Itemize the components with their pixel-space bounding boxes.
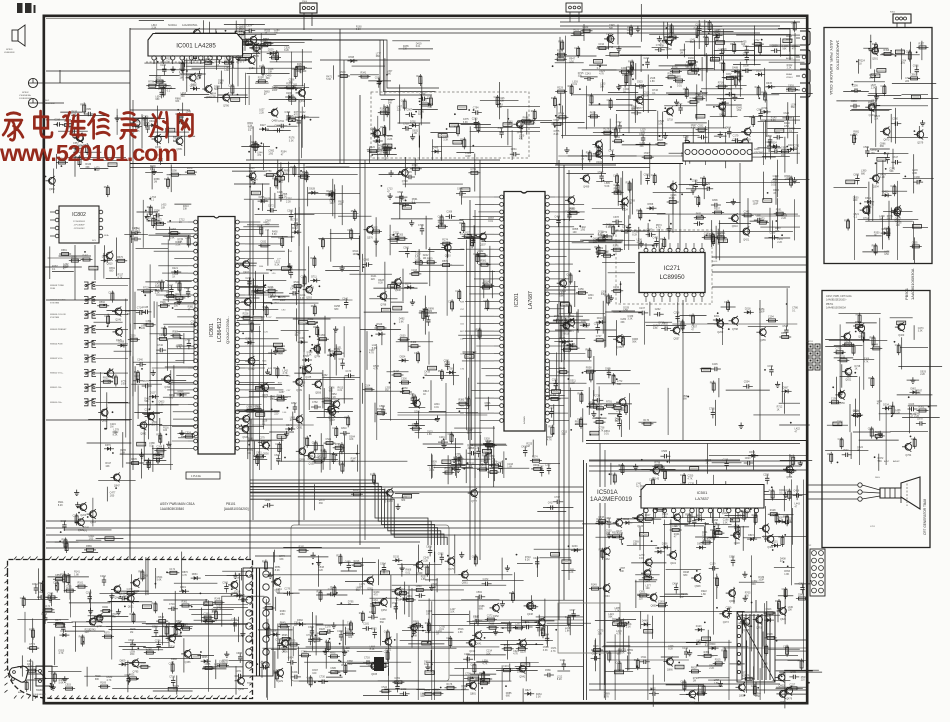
resistor C500 <box>654 509 666 511</box>
net label box <box>277 435 286 439</box>
resistor C483 <box>404 99 406 111</box>
resistor C398 <box>776 513 778 525</box>
ground <box>799 460 801 463</box>
transistor Q409 <box>416 562 423 569</box>
svg-text:R948: R948 <box>605 652 611 655</box>
svg-text:680: 680 <box>401 499 406 502</box>
wire <box>667 388 669 435</box>
diode D710 <box>302 359 305 361</box>
resistor C194 <box>152 216 154 228</box>
capacitor C598 <box>153 214 157 216</box>
resistor R548 <box>292 285 304 287</box>
capacitor C148 <box>887 154 889 158</box>
svg-text:5.6K: 5.6K <box>272 233 277 236</box>
ground <box>640 241 642 244</box>
svg-text:220: 220 <box>371 278 376 281</box>
svg-text:C417: C417 <box>548 502 554 505</box>
svg-text:56K: 56K <box>560 294 565 297</box>
resistor R471 <box>875 42 877 54</box>
svg-text:Q764: Q764 <box>905 454 912 457</box>
svg-text:C896: C896 <box>712 199 718 202</box>
wire <box>474 452 476 478</box>
wire <box>259 326 261 470</box>
transistor Q837 <box>689 691 696 698</box>
resistor R298 <box>169 174 181 176</box>
resistor R154 <box>413 624 415 636</box>
resistor C727 <box>594 339 606 341</box>
resistor R791 <box>697 26 699 38</box>
svg-text:R958: R958 <box>482 454 488 457</box>
resistor C779 <box>834 351 846 353</box>
svg-text:100P: 100P <box>272 89 278 92</box>
resistor C339 <box>581 30 593 32</box>
ground <box>676 99 678 102</box>
resistor C605 <box>910 245 922 247</box>
ground <box>628 224 630 227</box>
transistor Q217 <box>201 44 208 51</box>
transistor Q306 <box>894 209 901 216</box>
wire <box>266 642 268 700</box>
svg-text:3.3K: 3.3K <box>415 255 420 258</box>
svg-text:C396: C396 <box>128 639 134 642</box>
resistor R262 <box>328 640 330 652</box>
svg-text:C438: C438 <box>142 306 148 309</box>
diode D329 <box>267 52 270 54</box>
svg-text:C366: C366 <box>409 393 415 396</box>
svg-text:C957: C957 <box>297 65 303 68</box>
wire <box>624 202 626 250</box>
dashed IF amp box <box>371 92 529 158</box>
transistor Q278 <box>76 134 83 141</box>
svg-text:Q418: Q418 <box>734 542 741 545</box>
jack SP903 <box>28 98 55 107</box>
svg-text:C401: C401 <box>292 671 298 674</box>
capacitor C974 <box>770 366 772 370</box>
svg-text:2.2K: 2.2K <box>787 67 792 70</box>
resistor C708 <box>254 291 266 293</box>
svg-text:R350: R350 <box>551 97 557 100</box>
resistor R441 <box>758 85 760 97</box>
svg-text:D919: D919 <box>180 586 186 589</box>
capacitor C380 <box>288 112 290 116</box>
ground <box>412 299 414 302</box>
transistor Q386 <box>767 536 774 543</box>
wire <box>568 155 637 157</box>
svg-text:C351: C351 <box>146 320 152 323</box>
capacitor C123 <box>551 408 553 412</box>
svg-text:C545: C545 <box>724 301 730 304</box>
svg-text:C633: C633 <box>607 99 613 102</box>
ground <box>593 411 595 414</box>
svg-text:33K: 33K <box>752 583 757 586</box>
resistor R684 <box>667 201 679 203</box>
wire <box>390 284 392 421</box>
resistor R581 <box>479 264 491 266</box>
svg-text:Q556: Q556 <box>780 701 787 704</box>
resistor R745 <box>179 281 181 293</box>
svg-text:C810: C810 <box>341 427 347 430</box>
capacitor C797 <box>782 521 786 523</box>
resistor R562 <box>917 410 929 412</box>
resistor C916 <box>615 624 627 626</box>
resistor R636 <box>631 60 633 72</box>
diode D280 <box>285 96 288 98</box>
wire <box>854 195 856 260</box>
ground <box>732 199 734 202</box>
transistor Q790 <box>401 169 408 176</box>
transistor Q145 <box>653 467 660 474</box>
svg-text:C389: C389 <box>85 108 91 111</box>
wire <box>902 94 929 96</box>
svg-text:C583: C583 <box>661 450 667 453</box>
capacitor C720 <box>593 399 597 401</box>
resistor R149 <box>759 43 761 55</box>
resistor R992 <box>724 648 726 660</box>
svg-text:R668: R668 <box>353 489 359 492</box>
svg-text:C774: C774 <box>29 643 35 646</box>
net label box <box>560 302 569 306</box>
capacitor C233 <box>144 414 148 416</box>
svg-text:0.01: 0.01 <box>793 147 798 150</box>
wire <box>428 332 430 365</box>
capacitor C714 <box>136 312 140 314</box>
resistor C484 <box>404 599 416 601</box>
resistor R172 <box>154 223 166 225</box>
capacitor C278 <box>158 641 160 645</box>
svg-text:R506: R506 <box>609 225 615 228</box>
svg-text:A850P: A850P <box>893 460 900 463</box>
ground <box>389 193 391 196</box>
wire <box>534 548 583 550</box>
svg-text:220: 220 <box>141 327 146 330</box>
svg-text:R581: R581 <box>481 260 487 263</box>
svg-text:33K: 33K <box>640 145 645 148</box>
wire <box>501 665 503 700</box>
resistor R885 <box>715 236 727 238</box>
svg-text:C628: C628 <box>484 437 490 440</box>
svg-text:680: 680 <box>609 27 614 30</box>
resistor R880 <box>568 212 580 214</box>
ic IC271 LC89950 <box>639 243 718 302</box>
resistor C298 <box>267 626 269 638</box>
transistor Q229 <box>520 640 527 647</box>
capacitor C609 <box>400 192 402 196</box>
wire <box>288 627 290 661</box>
resistor R924 <box>344 663 346 675</box>
resistor C338 <box>754 684 756 696</box>
resistor C281 <box>373 604 375 616</box>
svg-text:C765: C765 <box>51 673 57 676</box>
resistor R646 <box>276 669 278 681</box>
resistor C255 <box>64 590 76 592</box>
transistor Q367 <box>329 409 336 416</box>
diode D815 <box>747 538 750 540</box>
wire <box>644 315 646 345</box>
svg-text:R561: R561 <box>505 622 511 625</box>
resistor R973 <box>765 644 767 656</box>
diode D118 <box>291 231 294 233</box>
resistor C558 <box>678 487 690 489</box>
resistor R264 <box>782 535 784 547</box>
svg-text:Q159: Q159 <box>309 463 316 466</box>
svg-text:D374: D374 <box>286 424 292 427</box>
resistor R978 <box>483 444 495 446</box>
component cluster left column jacks <box>45 103 128 198</box>
wire <box>272 299 353 301</box>
capacitor C582 <box>475 596 479 598</box>
resistor R176 <box>611 249 623 251</box>
svg-text:Q229: Q229 <box>277 680 284 683</box>
svg-text:C346: C346 <box>287 210 293 213</box>
capacitor C523 <box>395 603 397 607</box>
component cluster center col <box>350 154 505 441</box>
transistor Q550 <box>262 442 269 449</box>
svg-text:100: 100 <box>707 540 712 543</box>
svg-text:L16B020N: L16B020N <box>4 52 15 54</box>
ground <box>100 615 102 618</box>
net label box <box>470 677 479 681</box>
component cluster top-left around IC001 <box>139 19 312 108</box>
resistor C925 <box>56 581 58 593</box>
svg-text:D809: D809 <box>120 659 126 662</box>
svg-text:R648: R648 <box>523 116 529 119</box>
transistor Q159 <box>308 452 315 459</box>
resistor C714 <box>76 513 78 525</box>
wire <box>560 313 606 315</box>
svg-text:C756: C756 <box>301 275 307 278</box>
svg-text:Q145: Q145 <box>653 478 660 481</box>
transistor Q999 <box>729 590 736 597</box>
svg-text:R471: R471 <box>872 43 878 46</box>
net label box <box>481 678 490 682</box>
diode D339 <box>204 54 207 56</box>
resistor R103 <box>728 493 740 495</box>
svg-text:R672: R672 <box>870 336 876 339</box>
net label box <box>276 176 285 180</box>
svg-text:Q947: Q947 <box>114 484 121 487</box>
capacitor C702 <box>553 501 557 503</box>
svg-text:1.8K: 1.8K <box>650 80 655 83</box>
rear AV jacks <box>786 31 810 97</box>
svg-text:C565: C565 <box>766 135 772 138</box>
diode D234 <box>882 407 885 409</box>
resistor C151 <box>392 681 404 683</box>
svg-text:C109: C109 <box>680 474 686 477</box>
svg-text:C161: C161 <box>347 622 353 625</box>
capacitor C655 <box>161 88 163 92</box>
svg-text:C910: C910 <box>632 107 638 110</box>
svg-text:C246: C246 <box>689 315 695 318</box>
resistor R884 <box>556 116 568 118</box>
svg-text:Q199: Q199 <box>469 650 476 653</box>
diode D772 <box>601 235 604 237</box>
capacitor C959 <box>694 223 698 225</box>
resistor R278 <box>601 132 613 134</box>
svg-text:C650: C650 <box>719 62 725 65</box>
svg-text:R136: R136 <box>688 57 694 60</box>
ground <box>495 629 497 632</box>
net label box <box>763 199 772 203</box>
svg-text:C985: C985 <box>619 336 625 339</box>
svg-text:C639: C639 <box>782 588 788 591</box>
ground <box>437 416 439 419</box>
svg-text:C886: C886 <box>713 577 719 580</box>
transistor Q961 <box>858 325 865 332</box>
resistor R143 <box>378 112 390 114</box>
diode D950 <box>709 647 712 649</box>
transistor Q199 <box>469 640 476 647</box>
svg-text:D710: D710 <box>303 355 309 358</box>
transistor Q273 <box>722 610 729 617</box>
svg-text:Q475: Q475 <box>448 568 455 571</box>
wire <box>788 660 809 662</box>
svg-text:5.6K: 5.6K <box>258 291 263 294</box>
resistor R771 <box>688 512 690 524</box>
net label box <box>895 50 904 54</box>
net label box <box>204 602 213 606</box>
wire <box>253 51 312 53</box>
svg-text:2.2K: 2.2K <box>155 292 160 295</box>
wire <box>466 240 468 430</box>
svg-text:1AA2MEF0019: 1AA2MEF0019 <box>590 496 633 503</box>
resistor R116 <box>591 649 603 651</box>
wire <box>561 134 700 136</box>
resistor R163 <box>695 693 707 695</box>
wire <box>684 137 686 165</box>
net label box <box>142 605 151 609</box>
resistor R309 <box>293 165 295 177</box>
wire staircase bundle <box>250 480 447 545</box>
svg-text:470: 470 <box>374 594 379 597</box>
svg-text:R684: R684 <box>38 582 44 585</box>
transistor Q147 <box>616 519 623 526</box>
svg-text:C338: C338 <box>751 685 757 688</box>
svg-text:R621: R621 <box>856 314 862 317</box>
resistor R349 <box>477 468 489 470</box>
svg-text:C181: C181 <box>363 623 369 626</box>
wire <box>499 106 540 108</box>
svg-text:C342: C342 <box>300 111 306 114</box>
resistor C597 <box>642 156 654 158</box>
svg-text:5.6K: 5.6K <box>762 665 767 668</box>
svg-text:Q910: Q910 <box>107 263 114 266</box>
diode D695 <box>347 60 350 62</box>
wire <box>227 575 248 577</box>
svg-text:R677: R677 <box>311 305 317 308</box>
karaoke board frame <box>824 28 932 264</box>
resistor C211 <box>837 359 849 361</box>
resistor R353 <box>428 621 430 633</box>
svg-text:1.8K: 1.8K <box>412 132 417 135</box>
capacitor C703 <box>309 635 311 639</box>
vertical bus wires <box>75 28 760 690</box>
resistor R742 <box>159 433 161 445</box>
switch column SW001-SW008 <box>50 282 128 406</box>
resistor R248 <box>213 602 225 604</box>
svg-text:56K: 56K <box>356 589 361 592</box>
svg-text:R158: R158 <box>566 304 572 307</box>
svg-text:33K: 33K <box>598 632 603 635</box>
svg-text:C702: C702 <box>554 496 560 499</box>
svg-text:R560: R560 <box>99 301 105 304</box>
resistor C445 <box>107 314 109 326</box>
svg-text:C581: C581 <box>644 174 650 177</box>
component cluster right mid sparse <box>588 363 810 436</box>
diode D924 <box>399 359 402 361</box>
svg-text:Q173: Q173 <box>596 151 603 154</box>
diode D258 <box>245 342 248 344</box>
resistor R959 <box>712 232 714 244</box>
svg-text:1.8K: 1.8K <box>653 327 658 330</box>
svg-text:Q704: Q704 <box>97 625 104 628</box>
svg-text:1M: 1M <box>385 389 388 392</box>
transistor Q795 <box>132 660 139 667</box>
svg-text:C454: C454 <box>565 210 571 213</box>
resistor R156 <box>670 70 682 72</box>
resistor C630 <box>398 338 410 340</box>
resistor C216 <box>652 477 654 489</box>
svg-text:C391: C391 <box>219 661 225 664</box>
svg-text:1/50: 1/50 <box>268 152 273 155</box>
resistor C381 <box>299 654 311 656</box>
net label box <box>718 239 727 243</box>
svg-text:R228: R228 <box>330 586 336 589</box>
svg-text:R492: R492 <box>83 255 89 258</box>
wire <box>586 86 588 129</box>
wire <box>865 220 913 222</box>
svg-text:3.3K: 3.3K <box>543 649 548 652</box>
svg-text:Q913: Q913 <box>90 521 97 524</box>
svg-text:C322: C322 <box>470 663 476 666</box>
capacitor C423 <box>399 204 403 206</box>
wire <box>264 574 513 576</box>
svg-text:C725: C725 <box>704 183 710 186</box>
wire <box>168 383 196 385</box>
svg-text:100P: 100P <box>465 155 471 158</box>
resistor C248 <box>341 442 343 454</box>
svg-text:R341: R341 <box>380 126 386 129</box>
capacitor C362 <box>619 411 621 415</box>
resistor R420 <box>367 150 379 152</box>
svg-text:R835: R835 <box>130 613 136 616</box>
resistor R402 <box>693 97 705 99</box>
wire <box>488 447 490 478</box>
resistor R748 <box>457 124 459 136</box>
svg-text:Q663: Q663 <box>604 595 611 598</box>
svg-text:1M: 1M <box>236 576 239 579</box>
net label box <box>562 560 571 564</box>
capacitor C589 <box>695 180 697 184</box>
capacitor C563 <box>870 104 874 106</box>
wire <box>593 131 798 133</box>
svg-text:C577: C577 <box>843 449 849 452</box>
transistor Q269 <box>717 321 724 328</box>
net label 4 PULSE <box>186 472 220 479</box>
transistor Q421 <box>743 228 750 235</box>
svg-text:R884: R884 <box>558 112 564 115</box>
wire <box>106 625 193 627</box>
capacitor C220 <box>163 65 165 69</box>
wire <box>159 635 243 637</box>
svg-text:R408: R408 <box>577 393 583 396</box>
svg-text:1/50: 1/50 <box>130 653 135 656</box>
resistor R910 <box>382 148 394 150</box>
resistor C595 <box>686 87 688 99</box>
svg-text:C695: C695 <box>472 555 478 558</box>
svg-text:0.01: 0.01 <box>431 586 436 589</box>
wire <box>396 633 398 687</box>
svg-text:R186: R186 <box>377 408 383 411</box>
